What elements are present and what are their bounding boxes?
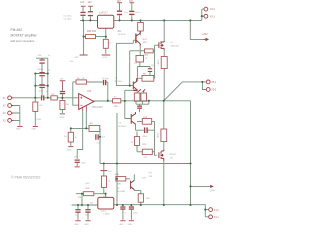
svg-text:24V: 24V (108, 171, 112, 173)
svg-text:GND: GND (60, 117, 65, 119)
svg-text:100n: 100n (85, 215, 90, 217)
svg-text:470: 470 (117, 183, 121, 185)
svg-text:L4003: L4003 (104, 213, 111, 215)
svg-text:12V: 12V (60, 78, 64, 80)
svg-text:+24V: +24V (202, 32, 208, 36)
svg-text:R11: R11 (143, 144, 148, 146)
svg-text:X5-2: X5-2 (211, 89, 217, 92)
svg-text:GND: GND (84, 224, 89, 226)
svg-text:22R: 22R (114, 106, 118, 108)
svg-text:1u: 1u (48, 69, 51, 71)
svg-text:0R5: 0R5 (146, 198, 151, 200)
svg-text:100n: 100n (135, 12, 140, 14)
svg-text:BC560C: BC560C (115, 81, 123, 83)
svg-text:GND: GND (16, 128, 21, 130)
svg-text:22R: 22R (149, 176, 153, 178)
svg-text:X1: X1 (3, 97, 7, 100)
svg-text:GND: GND (74, 224, 79, 226)
svg-text:2SJ162: 2SJ162 (169, 154, 177, 156)
svg-text:GND: GND (37, 119, 42, 121)
svg-text:X2: X2 (3, 112, 7, 115)
svg-text:C11: C11 (38, 55, 43, 57)
svg-text:with error correction: with error correction (11, 39, 35, 43)
svg-text:R4: R4 (64, 136, 68, 138)
svg-text:X4-2: X4-2 (214, 209, 220, 212)
svg-text:-24V: -24V (209, 190, 214, 193)
svg-text:X2: X2 (3, 105, 7, 108)
svg-text:R21: R21 (117, 31, 122, 33)
svg-text:3n3: 3n3 (101, 136, 105, 138)
svg-text:D8: D8 (170, 157, 174, 159)
svg-text:R26: R26 (86, 188, 91, 190)
svg-text:1M: 1M (66, 104, 69, 106)
svg-text:1k: 1k (108, 181, 111, 183)
svg-text:X3-1: X3-1 (210, 15, 216, 18)
svg-text:1k: 1k (145, 58, 148, 60)
svg-text:270: 270 (78, 197, 82, 199)
svg-text:0u60J: 0u60J (100, 211, 106, 213)
svg-text:MOSFET amplifier: MOSFET amplifier (11, 34, 38, 38)
svg-text:OPA134P: OPA134P (92, 105, 104, 109)
svg-text:1k: 1k (109, 43, 112, 45)
svg-text:100n: 100n (133, 212, 138, 214)
svg-text:100: 100 (143, 157, 147, 159)
svg-text:BC550C: BC550C (118, 34, 126, 36)
svg-text:T2: T2 (115, 78, 118, 80)
svg-text:+14V: +14V (85, 183, 91, 185)
svg-text:0R22: 0R22 (158, 59, 160, 65)
svg-text:100n: 100n (81, 162, 86, 164)
svg-text:2SK1058: 2SK1058 (170, 45, 179, 47)
svg-text:1u: 1u (124, 212, 127, 214)
svg-text:22R: 22R (142, 178, 146, 180)
svg-text:2u2: 2u2 (75, 215, 79, 217)
svg-text:47k: 47k (39, 105, 43, 107)
svg-text:T8: T8 (117, 188, 120, 190)
svg-text:© PMA 05/20/2022: © PMA 05/20/2022 (11, 175, 40, 179)
svg-text:LM317: LM317 (99, 10, 108, 14)
svg-text:R18: R18 (115, 174, 120, 176)
svg-text:K1: K1 (90, 203, 93, 205)
svg-text:PM-A92: PM-A92 (11, 28, 23, 32)
svg-text:GND: GND (67, 150, 72, 152)
svg-text:R15: R15 (149, 173, 154, 175)
svg-text:X2: X2 (3, 120, 7, 123)
svg-text:0R22: 0R22 (158, 132, 160, 138)
svg-text:X3-2: X3-2 (210, 8, 216, 11)
svg-text:R21: R21 (143, 39, 148, 41)
svg-text:C15: C15 (39, 90, 44, 92)
svg-text:4R7: 4R7 (143, 42, 148, 44)
svg-text:T5: T5 (119, 123, 122, 125)
svg-text:12V: 12V (80, 2, 85, 4)
svg-text:R6: R6 (90, 123, 94, 125)
svg-text:+12V: +12V (74, 57, 80, 59)
svg-text:T6: T6 (170, 42, 173, 44)
svg-text:IC1: IC1 (87, 89, 92, 93)
svg-text:100R: 100R (143, 54, 148, 56)
svg-text:+12V: +12V (102, 57, 108, 59)
svg-text:R22 1k5: R22 1k5 (87, 30, 97, 33)
svg-text:1k: 1k (132, 140, 134, 143)
svg-text:C5 10p: C5 10p (102, 78, 110, 80)
svg-text:1u: 1u (48, 55, 51, 57)
svg-text:BC560C: BC560C (119, 126, 127, 128)
svg-text:BC546B: BC546B (117, 191, 125, 193)
svg-text:12V: 12V (88, 2, 93, 4)
svg-text:C7: C7 (134, 63, 138, 65)
svg-text:12V: 12V (117, 1, 122, 3)
svg-text:GND: GND (128, 224, 133, 226)
svg-text:C16: C16 (143, 136, 148, 138)
svg-text:1k: 1k (75, 137, 78, 139)
svg-text:GND: GND (31, 128, 36, 130)
svg-text:12V: 12V (129, 1, 134, 3)
svg-text:GND: GND (119, 224, 124, 226)
svg-text:47k: 47k (70, 61, 74, 63)
svg-text:10u: 10u (124, 12, 128, 14)
svg-text:X5-1: X5-1 (211, 81, 217, 84)
svg-text:X4-1: X4-1 (214, 216, 220, 219)
svg-text:C4 100n: C4 100n (64, 18, 73, 20)
svg-text:C3 100u: C3 100u (64, 16, 73, 18)
